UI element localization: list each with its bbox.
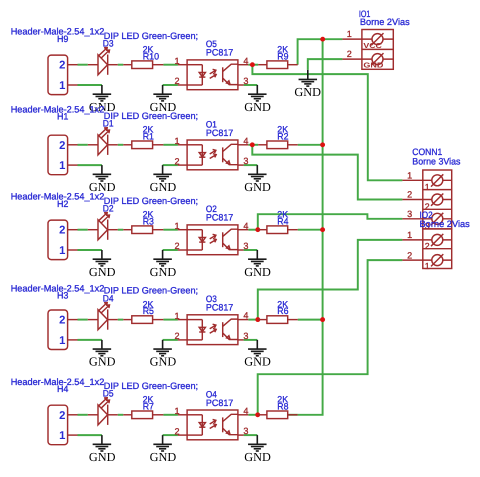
wire H9.1 to ground <box>78 84 102 86</box>
optocoupler O5 (PC817) <box>187 60 238 90</box>
wire O1 pin 4 to CONN1 pin 2 <box>252 145 402 200</box>
svg-text:1: 1 <box>59 80 65 92</box>
LED D2 (DIP LED Green-Green) <box>98 220 108 240</box>
wire H1.1 to ground <box>78 164 102 166</box>
wire O4 pin 4 to R8 <box>248 414 258 416</box>
svg-text:2: 2 <box>175 331 180 341</box>
svg-text:1: 1 <box>175 406 180 416</box>
svg-text:GND: GND <box>150 355 177 369</box>
svg-text:3: 3 <box>407 209 412 219</box>
wire O4 pin 2 to ground <box>163 434 178 436</box>
ground (under H9 pin 1) <box>101 85 103 94</box>
svg-text:GND: GND <box>244 265 271 279</box>
svg-text:2: 2 <box>407 250 412 260</box>
svg-text:GND: GND <box>150 450 177 464</box>
svg-text:1: 1 <box>59 335 65 347</box>
wire R2 to VCC rail <box>298 144 323 146</box>
svg-text:GND: GND <box>244 355 271 369</box>
svg-text:R3: R3 <box>143 216 154 226</box>
pin stub CONN1.2 <box>402 199 422 201</box>
junction dot node O3.4 <box>255 317 260 322</box>
svg-text:GND: GND <box>244 100 271 114</box>
svg-text:DIP LED Green-Green;: DIP LED Green-Green; <box>104 286 198 296</box>
svg-text:GND: GND <box>89 355 116 369</box>
wire H2.1 to ground <box>78 249 102 251</box>
pin stub H3.2 <box>68 319 78 321</box>
svg-text:GND: GND <box>150 265 177 279</box>
resistor R8 <box>258 414 267 416</box>
header H9 (Header-Male-2.54_1x2) <box>48 55 68 95</box>
svg-text:1: 1 <box>175 136 180 146</box>
svg-text:GND: GND <box>294 85 321 99</box>
wire H4.2 to D5 <box>78 414 88 416</box>
header H3 (Header-Male-2.54_1x2) <box>48 310 68 350</box>
svg-text:2: 2 <box>175 241 180 251</box>
wire R5 to O3 pin 1 <box>163 319 178 321</box>
wire R9 to VCC rail and IO1 pin 1 <box>298 39 343 64</box>
svg-text:2: 2 <box>407 190 412 200</box>
ground (IO1 pin 2) <box>307 70 309 80</box>
svg-text:H1: H1 <box>57 112 69 122</box>
svg-text:3: 3 <box>243 76 248 86</box>
svg-text:2: 2 <box>59 410 65 422</box>
wire O4 pin 4 to IO2 pin 2 <box>258 260 403 415</box>
wire H9.2 to D3 <box>78 64 88 66</box>
svg-text:Borne 3Vias: Borne 3Vias <box>412 157 461 167</box>
svg-text:4: 4 <box>243 406 248 416</box>
junction dot node O4.4 <box>255 412 260 417</box>
pin stub H1.1 <box>68 164 78 166</box>
ground (under O5 pin 3) <box>256 85 258 94</box>
wire O2 pin 2 to ground <box>163 249 178 251</box>
svg-text:R8: R8 <box>277 401 288 411</box>
ground (under O2 pin 2) <box>162 250 164 259</box>
junction dot node O1.4 <box>250 142 255 147</box>
svg-text:4: 4 <box>243 136 248 146</box>
svg-text:3: 3 <box>243 241 248 251</box>
svg-text:1: 1 <box>407 230 412 240</box>
ground (under O1 pin 3) <box>256 165 258 174</box>
pin stub H2.2 <box>68 229 78 231</box>
ground (under O5 pin 2) <box>162 85 164 94</box>
svg-text:D4: D4 <box>103 293 114 303</box>
svg-text:R4: R4 <box>277 216 288 226</box>
pin stub CONN1.3 <box>402 218 422 220</box>
wire H1.2 to D1 <box>78 144 88 146</box>
connector IO2 (Borne 2Vias) <box>423 229 452 269</box>
connector IO1 (Borne 2Vias) <box>362 30 393 70</box>
svg-text:1: 1 <box>175 311 180 321</box>
svg-text:2: 2 <box>59 140 65 152</box>
resistor R5 <box>123 319 132 321</box>
junction dot VCC rail row 3 <box>320 227 325 232</box>
wire IO1 pin 2 to ground <box>308 59 343 70</box>
wire H3.2 to D4 <box>78 319 88 321</box>
wire R3 to O2 pin 1 <box>163 229 178 231</box>
svg-text:3: 3 <box>243 426 248 436</box>
svg-text:GND: GND <box>150 180 177 194</box>
svg-text:R1: R1 <box>143 131 154 141</box>
wire H4.1 to ground <box>78 434 102 436</box>
resistor R3 <box>123 229 132 231</box>
svg-text:GND: GND <box>244 180 271 194</box>
wire O3 pin 4 to IO2 pin 1 <box>258 240 403 320</box>
svg-text:H4: H4 <box>57 384 69 394</box>
svg-text:R10: R10 <box>143 51 159 61</box>
wire O2 pin 4 to CONN1 pin 3 <box>258 214 403 230</box>
svg-text:1: 1 <box>175 56 180 66</box>
optocoupler O4 (PC817) <box>187 410 238 440</box>
svg-text:1: 1 <box>59 160 65 172</box>
resistor R10 <box>123 64 132 66</box>
wire R8 to VCC rail <box>288 414 298 416</box>
svg-text:2: 2 <box>425 241 430 251</box>
wire R1 to O1 pin 1 <box>163 144 178 146</box>
wire O5 pin 3 to ground <box>244 84 258 86</box>
resistor R6 <box>258 319 267 321</box>
junction dot VCC rail row 4 <box>320 317 325 322</box>
wire D4 to R5 <box>118 319 124 321</box>
optocoupler O3 (PC817) <box>187 315 238 345</box>
svg-text:VCC: VCC <box>363 41 382 50</box>
LED D5 (DIP LED Green-Green) <box>98 405 108 425</box>
svg-text:2: 2 <box>59 225 65 237</box>
svg-text:2: 2 <box>59 315 65 327</box>
wire O1 pin 3 to ground <box>244 164 258 166</box>
svg-text:R7: R7 <box>143 401 154 411</box>
wire R7 to O4 pin 1 <box>163 414 178 416</box>
wire H2.2 to D2 <box>78 229 88 231</box>
wire O3 pin 2 to ground <box>163 339 178 341</box>
svg-text:PC817: PC817 <box>206 213 233 223</box>
svg-text:GND: GND <box>89 265 116 279</box>
svg-text:GND: GND <box>89 450 116 464</box>
wire O2 pin 3 to ground <box>244 249 258 251</box>
junction dot VCC rail row 2 <box>320 142 325 147</box>
wire R4 to VCC rail <box>298 229 323 231</box>
svg-text:PC817: PC817 <box>206 398 233 408</box>
wire R6 to VCC rail <box>298 319 323 321</box>
ground (under O1 pin 2) <box>162 165 164 174</box>
pin stub IO1.2 <box>342 58 362 60</box>
pin stub IO2.1 <box>402 239 422 241</box>
junction dot VCC rail top <box>320 37 325 42</box>
wire O1 pin 2 to ground <box>163 164 178 166</box>
svg-text:R9: R9 <box>277 51 288 61</box>
wire O5 pin 2 to ground <box>163 84 178 86</box>
svg-text:GND: GND <box>244 450 271 464</box>
svg-text:1: 1 <box>425 261 430 271</box>
ground (under H4 pin 1) <box>101 435 103 444</box>
wire D2 to R3 <box>118 229 124 231</box>
svg-text:4: 4 <box>243 56 248 66</box>
svg-text:1: 1 <box>59 430 65 442</box>
LED D4 (DIP LED Green-Green) <box>98 310 108 330</box>
ground (under O3 pin 2) <box>162 340 164 349</box>
pin stub IO1.1 <box>342 38 362 40</box>
wire O1 pin 4 to R2 <box>248 144 258 146</box>
svg-text:1: 1 <box>407 170 412 180</box>
svg-text:1: 1 <box>175 221 180 231</box>
svg-text:DIP LED Green-Green;: DIP LED Green-Green; <box>104 381 198 391</box>
wire D5 to R7 <box>118 414 124 416</box>
wire O4 pin 3 to ground <box>244 434 258 436</box>
svg-text:H9: H9 <box>57 34 69 44</box>
svg-text:3: 3 <box>243 156 248 166</box>
pin stub IO2.2 <box>402 259 422 261</box>
svg-text:H3: H3 <box>57 291 69 301</box>
svg-text:3: 3 <box>243 331 248 341</box>
wire D1 to R1 <box>118 144 124 146</box>
wire O3 pin 4 to R6 <box>248 319 258 321</box>
resistor R1 <box>123 144 132 146</box>
pin stub H9.2 <box>68 64 78 66</box>
optocoupler O2 (PC817) <box>187 225 238 255</box>
resistor R9 <box>258 64 267 66</box>
pin stub H3.1 <box>68 339 78 341</box>
header H1 (Header-Male-2.54_1x2) <box>48 135 68 175</box>
svg-text:GND: GND <box>363 61 383 70</box>
svg-text:PC817: PC817 <box>206 48 233 58</box>
wire O5 pin 4 to R9 <box>248 64 258 66</box>
pin stub H1.2 <box>68 144 78 146</box>
svg-text:2: 2 <box>175 426 180 436</box>
svg-text:R6: R6 <box>277 306 288 316</box>
svg-text:2: 2 <box>175 76 180 86</box>
svg-text:1: 1 <box>425 182 430 192</box>
svg-text:2: 2 <box>175 156 180 166</box>
resistor R7 <box>123 414 132 416</box>
ground (under O3 pin 3) <box>256 340 258 349</box>
svg-text:D2: D2 <box>103 204 114 214</box>
pin stub H9.1 <box>68 84 78 86</box>
LED D1 (DIP LED Green-Green) <box>98 135 108 155</box>
wire VCC rail (vertical) <box>298 39 323 415</box>
svg-text:1: 1 <box>347 29 352 39</box>
svg-text:4: 4 <box>243 311 248 321</box>
ground (under O4 pin 3) <box>256 435 258 444</box>
junction dot node O2.4 <box>255 227 260 232</box>
connector CONN1 (Borne 3Vias) <box>423 170 452 229</box>
svg-text:2: 2 <box>59 60 65 72</box>
ground (under H3 pin 1) <box>101 340 103 349</box>
svg-text:DIP LED Green-Green;: DIP LED Green-Green; <box>104 196 198 206</box>
header H4 (Header-Male-2.54_1x2) <box>48 405 68 445</box>
resistor R4 <box>258 229 267 231</box>
svg-text:D5: D5 <box>103 389 114 399</box>
wire R10 to O5 pin 1 <box>163 64 178 66</box>
svg-text:Borne 2Vias: Borne 2Vias <box>420 219 471 229</box>
resistor R2 <box>258 144 267 146</box>
svg-text:R5: R5 <box>143 306 154 316</box>
pin stub CONN1.1 <box>402 179 422 181</box>
wire H3.1 to ground <box>78 339 102 341</box>
pin stub H4.2 <box>68 414 78 416</box>
svg-text:D3: D3 <box>103 39 114 49</box>
svg-text:R2: R2 <box>277 131 288 141</box>
ground (under O4 pin 2) <box>162 435 164 444</box>
svg-text:PC817: PC817 <box>206 128 233 138</box>
wire D3 to R10 <box>118 64 124 66</box>
svg-text:1: 1 <box>59 245 65 257</box>
pin stub H2.1 <box>68 249 78 251</box>
svg-text:D1: D1 <box>103 119 114 129</box>
ground (under O2 pin 3) <box>256 250 258 259</box>
svg-text:2: 2 <box>347 49 352 59</box>
ground (under H1 pin 1) <box>101 165 103 174</box>
svg-text:Borne 2Vias: Borne 2Vias <box>360 17 410 27</box>
wire O3 pin 3 to ground <box>244 339 258 341</box>
junction dot node O5.4 <box>250 62 255 67</box>
svg-text:4: 4 <box>243 221 248 231</box>
svg-text:PC817: PC817 <box>206 303 233 313</box>
header H2 (Header-Male-2.54_1x2) <box>48 220 68 260</box>
LED D3 (DIP LED Green-Green) <box>98 55 108 75</box>
svg-text:DIP LED Green-Green;: DIP LED Green-Green; <box>104 31 198 41</box>
ground (under H2 pin 1) <box>101 250 103 259</box>
optocoupler O1 (PC817) <box>187 140 238 170</box>
wire O2 pin 4 to R4 <box>248 229 258 231</box>
svg-text:H2: H2 <box>57 199 69 209</box>
svg-text:DIP LED Green-Green;: DIP LED Green-Green; <box>104 111 198 121</box>
wire O5 pin 4 to CONN1 pin 1 <box>252 65 402 181</box>
pin stub H4.1 <box>68 434 78 436</box>
